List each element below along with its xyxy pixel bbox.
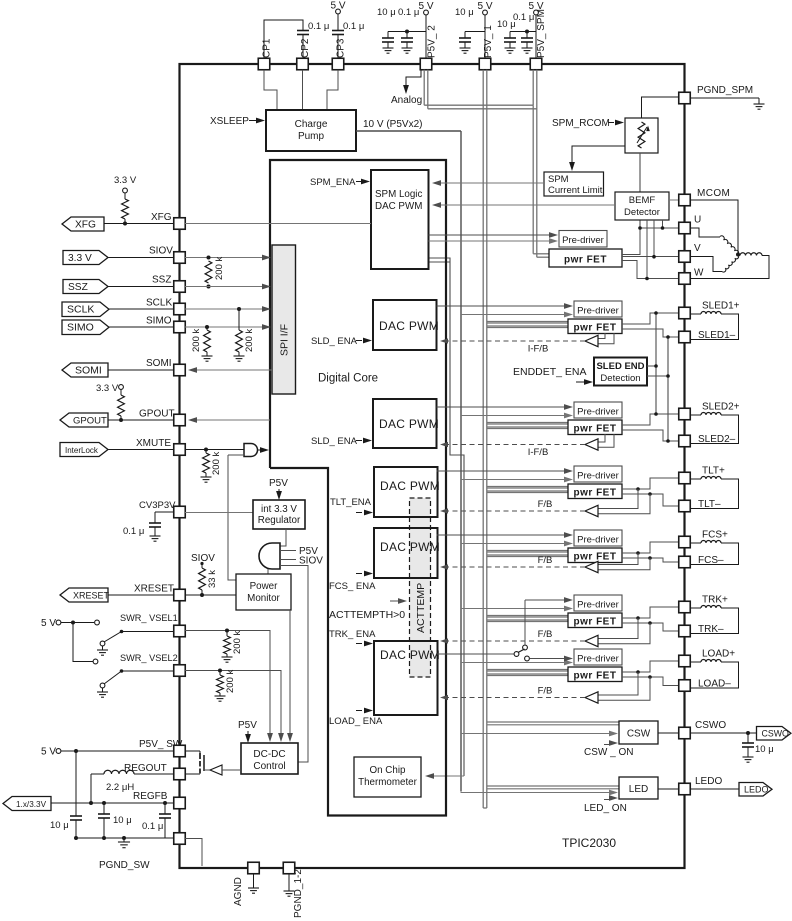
svg-text:TLT_ENA: TLT_ENA xyxy=(330,497,372,508)
5V supply node for P5V_2 xyxy=(424,10,429,15)
bus P5V_SPM double vertical xyxy=(532,105,534,254)
pin XRESET xyxy=(174,589,186,601)
dashed feedback line SLED1 xyxy=(443,340,585,342)
wire sense- to FB amp SLED1 xyxy=(598,333,614,344)
svg-text:Detection: Detection xyxy=(600,373,640,384)
svg-text:5 V: 5 V xyxy=(418,1,433,12)
svg-text:CP3: CP3 xyxy=(336,38,347,58)
DAC PWM border redraw 3 xyxy=(374,467,438,517)
pin REGFB xyxy=(174,797,186,809)
svg-text:5 V: 5 V xyxy=(477,1,492,12)
wire power monitor to DC-DC xyxy=(289,610,291,737)
wire DAC to pre-driver SLED2 xyxy=(437,406,569,408)
svg-text:CP1: CP1 xyxy=(262,38,273,58)
tag SSZ xyxy=(63,280,108,294)
svg-text:0.1 μ: 0.1 μ xyxy=(142,821,163,832)
DAC PWM block 3 TLT xyxy=(374,467,438,517)
wire SIOV xyxy=(108,257,174,259)
inductor loop FCS xyxy=(690,542,701,544)
svg-text:SIMO: SIMO xyxy=(146,316,172,327)
ground under 0.1u cap P5V_2 xyxy=(406,42,408,48)
wire SIMO xyxy=(109,326,174,328)
capacitor 0.1u CV3P3V xyxy=(149,522,161,524)
pin CP3 xyxy=(332,58,344,70)
svg-text:SLED1–: SLED1– xyxy=(698,330,736,341)
wire arrow into on-chip thermometer xyxy=(427,775,464,777)
svg-text:CSWO: CSWO xyxy=(762,729,790,739)
wire sense- to FB amp FCS xyxy=(598,558,650,570)
wire SLED END sense rail - xyxy=(647,375,668,377)
pullup 3.3V for XFG xyxy=(123,188,128,193)
svg-text:SPI I/F: SPI I/F xyxy=(279,324,291,356)
selector switch TRK LOAD xyxy=(437,653,515,655)
svg-text:SIOV: SIOV xyxy=(191,553,215,564)
pin XMUTE xyxy=(174,444,186,456)
resistor 200k SCLK pulldown xyxy=(238,309,240,330)
wire SPM logic to pre-driver 1 xyxy=(429,234,554,236)
wire SCLK xyxy=(109,308,174,310)
svg-text:XSLEEP: XSLEEP xyxy=(210,116,249,127)
pin PGND_SW xyxy=(174,833,186,845)
svg-text:3.3 V: 3.3 V xyxy=(114,175,137,186)
capacitor 0.1u on CP3 xyxy=(332,30,344,32)
dashed feedback line TRK xyxy=(443,640,585,642)
pin CSWO xyxy=(658,732,679,734)
pin GPOUT xyxy=(174,414,186,426)
svg-text:XMUTE: XMUTE xyxy=(136,438,171,449)
wire CSWO to tag xyxy=(690,732,757,734)
svg-text:P5V_ 1: P5V_ 1 xyxy=(483,25,494,58)
wire pwr FET out- SLED2 xyxy=(622,430,679,441)
tag LEDO xyxy=(739,783,772,797)
pin LOAD- xyxy=(679,680,691,692)
wire RCOM sense down to FET output xyxy=(639,153,641,228)
wire XFG internal to SPM logic xyxy=(185,223,371,225)
pin SOMI xyxy=(174,364,186,376)
wire XMUTE xyxy=(108,449,174,451)
pin W xyxy=(679,273,691,285)
svg-text:PGND_SW: PGND_SW xyxy=(99,860,150,871)
ground VSEL1 switch xyxy=(102,646,104,650)
wire pwr FET out+ FCS xyxy=(622,542,679,553)
svg-text:pwr FET: pwr FET xyxy=(574,424,617,435)
svg-text:LOAD–: LOAD– xyxy=(698,679,731,690)
motor winding U phase xyxy=(690,228,720,237)
wire pwr FET out- SLED1 xyxy=(622,329,679,337)
int 3.3V regulator block xyxy=(253,500,305,529)
pin SLED2+ xyxy=(679,408,691,420)
pin CP1 xyxy=(258,58,270,70)
svg-text:REGFB: REGFB xyxy=(133,791,168,802)
svg-text:Pre-driver: Pre-driver xyxy=(577,535,619,546)
svg-text:SLED2+: SLED2+ xyxy=(702,402,740,413)
wire AND gate output to core xyxy=(258,449,263,451)
svg-text:3.3 V: 3.3 V xyxy=(68,253,92,264)
svg-text:SPM: SPM xyxy=(548,174,569,185)
svg-text:REGOUT: REGOUT xyxy=(124,763,167,774)
pin MCOM xyxy=(679,194,691,206)
pin TRK- xyxy=(679,625,691,637)
tag 1.x/3.3V output xyxy=(3,797,51,811)
svg-text:pwr FET: pwr FET xyxy=(574,488,617,499)
bus P5V_2 double horizontal xyxy=(423,70,425,106)
DAC PWM block 4 FCS xyxy=(374,528,438,578)
inductor loop SLED2 xyxy=(690,414,701,416)
decoupling branch P5V_2 xyxy=(388,31,426,33)
svg-text:XFG: XFG xyxy=(151,212,172,223)
svg-text:10 V (P5Vx2): 10 V (P5Vx2) xyxy=(363,119,422,130)
svg-text:Thermometer: Thermometer xyxy=(358,777,418,788)
switch lever VSEL1 xyxy=(120,630,124,634)
wire bus double feed to LED xyxy=(487,785,619,787)
BEMF detector block xyxy=(615,192,669,220)
pin U xyxy=(679,222,691,234)
capacitor 0.1u on CP2 xyxy=(297,30,309,32)
svg-text:CV3P3V: CV3P3V xyxy=(139,500,176,511)
wire pwr FET out+ TLT xyxy=(622,478,679,489)
pin SIMO xyxy=(174,321,186,333)
wire 5V down to P5V_SPM pin xyxy=(535,15,537,59)
capacitor 0.1u at P5V_2 xyxy=(401,37,413,39)
pwr FET block SLED2 xyxy=(568,420,622,435)
svg-text:pwr FET: pwr FET xyxy=(574,671,617,682)
svg-text:SCLK: SCLK xyxy=(146,298,172,309)
svg-text:5 V: 5 V xyxy=(41,618,56,629)
power monitor block xyxy=(236,574,291,610)
pin REGOUT xyxy=(174,768,186,780)
label LOAD_ENA with arrow xyxy=(356,710,362,712)
wire 5V to VSEL2 contact xyxy=(73,623,93,662)
svg-text:PGND_1-2: PGND_1-2 xyxy=(293,869,304,918)
pin CV3P3V xyxy=(174,506,186,518)
svg-text:XRESET: XRESET xyxy=(134,584,174,595)
ground under 10u cap P5V_1 xyxy=(464,42,466,48)
svg-text:Detector: Detector xyxy=(624,207,660,218)
wire BEMF sense tap U xyxy=(662,220,664,228)
svg-text:5 V: 5 V xyxy=(330,1,345,12)
SPM Logic DAC PWM block xyxy=(371,170,429,269)
svg-text:Pre-driver: Pre-driver xyxy=(562,235,604,246)
pin SCLK xyxy=(174,303,186,315)
wire gate output to DC-DC xyxy=(280,566,308,763)
pwr FET block FCS xyxy=(568,548,622,563)
5V supply node for P5V_SPM xyxy=(534,10,539,15)
resistor 200k SIOV-SSZ xyxy=(205,261,212,283)
pin P5V_2 xyxy=(420,58,432,70)
ground under 10u cap P5V_SPM xyxy=(509,42,511,48)
inductor 2.2uH xyxy=(104,770,134,774)
wire 10V bus to pre-driver LOAD xyxy=(461,662,568,664)
svg-text:Pre-driver: Pre-driver xyxy=(577,600,619,611)
bus SPM logic aux vertical 2 xyxy=(429,261,451,263)
svg-text:F/B: F/B xyxy=(538,499,553,510)
DAC PWM border redraw 4 xyxy=(374,528,438,578)
svg-text:CSW: CSW xyxy=(627,729,651,740)
ground under 0.1u cap P5V_SPM xyxy=(526,42,528,48)
pwr FET block SLED1 xyxy=(568,319,622,334)
wire sense+ to FB amp TLT xyxy=(598,489,638,509)
svg-text:33 k: 33 k xyxy=(207,570,218,588)
svg-text:200 k: 200 k xyxy=(244,329,255,352)
svg-text:DAC PWM: DAC PWM xyxy=(380,648,440,662)
wire pwr FET out+ SLED1 xyxy=(622,313,679,324)
svg-text:10 μ: 10 μ xyxy=(455,7,474,18)
svg-text:0.1 μ: 0.1 μ xyxy=(398,7,419,18)
wire SSZ xyxy=(108,286,174,288)
wire GPOUT xyxy=(108,419,174,421)
svg-text:0.1 μ: 0.1 μ xyxy=(308,21,329,32)
wire 5V to CP3 cap xyxy=(337,14,339,31)
pwr FET block LOAD xyxy=(568,667,622,682)
svg-text:SPM_RCOM: SPM_RCOM xyxy=(552,118,610,129)
wire power monitor to AND gate xyxy=(228,455,236,580)
wire sense+ to FB amp SLED1 xyxy=(598,333,605,339)
DC-DC control block xyxy=(241,743,298,774)
svg-text:F/B: F/B xyxy=(538,686,553,697)
pin AGND xyxy=(248,862,260,874)
bus double feed to pwr FET FCS xyxy=(487,550,568,552)
SPI I/F block xyxy=(272,245,296,394)
wire 10V bus to CSW xyxy=(461,733,613,735)
motor winding MCOM wire xyxy=(690,200,738,255)
wire PGND_SPM to external ground xyxy=(690,97,759,99)
wire VSEL2 internal xyxy=(185,671,281,738)
svg-text:10 μ: 10 μ xyxy=(50,820,69,831)
svg-text:LOAD_ ENA: LOAD_ ENA xyxy=(329,716,383,727)
wire SSZ internal to SPI xyxy=(185,286,266,288)
pre-driver block LOAD xyxy=(574,649,622,665)
pre-driver block FCS xyxy=(574,530,622,546)
DAC PWM block 5 TRK LOAD xyxy=(374,641,438,715)
dashed feedback line SLED2 xyxy=(443,444,585,446)
svg-text:SIOV: SIOV xyxy=(149,246,173,257)
dashed feedback line FCS xyxy=(443,566,585,568)
bus P5V_1 double vertical xyxy=(482,70,484,808)
pin P5V_SPM xyxy=(530,58,542,70)
svg-text:FCS_ ENA: FCS_ ENA xyxy=(329,581,376,592)
switch lever VSEL2 xyxy=(120,669,124,673)
wire 5V to VSEL1 contact xyxy=(61,622,94,624)
wire SPM current limit to SPM logic xyxy=(434,182,544,184)
pass FET switch xyxy=(185,750,200,752)
svg-text:0.1 μ: 0.1 μ xyxy=(343,21,364,32)
AND gate XMUTE xyxy=(244,444,258,457)
inductor loop SLED1 xyxy=(690,313,701,315)
svg-text:I-F/B: I-F/B xyxy=(528,447,549,458)
wire BEMF sense tap V xyxy=(653,220,655,257)
wire CP2 pin to charge pump xyxy=(302,70,304,110)
feedback amp triangle TRK xyxy=(585,635,598,646)
svg-text:P5V: P5V xyxy=(238,720,257,731)
svg-text:LEDO: LEDO xyxy=(744,785,769,795)
svg-text:Current Limit: Current Limit xyxy=(548,185,603,196)
svg-text:10 μ: 10 μ xyxy=(377,7,396,18)
wire charge pump output 10V xyxy=(356,130,461,132)
wire U pin lead xyxy=(640,227,679,229)
LED block xyxy=(619,777,658,799)
wire pwr FET SPM out V xyxy=(622,256,679,258)
pin TLT+ xyxy=(679,472,691,484)
wire 10V bus to pre-driver SLED1 xyxy=(461,314,568,316)
svg-text:Analog: Analog xyxy=(391,95,422,106)
bus 10V analog vertical xyxy=(460,131,462,791)
pwr FET block TRK xyxy=(568,613,622,628)
pin CP2 xyxy=(297,58,309,70)
svg-text:FCS+: FCS+ xyxy=(702,530,728,541)
svg-text:SLD_ ENA: SLD_ ENA xyxy=(311,336,358,347)
wire CP3 pin to charge pump xyxy=(327,70,338,110)
svg-text:P5V_ 2: P5V_ 2 xyxy=(427,25,438,58)
svg-text:200 k: 200 k xyxy=(214,257,225,280)
wire XRESET xyxy=(108,594,174,596)
svg-text:FCS–: FCS– xyxy=(698,555,724,566)
svg-text:10 μ: 10 μ xyxy=(113,815,132,826)
svg-text:SCLK: SCLK xyxy=(67,304,94,316)
capacitor 0.1u output xyxy=(164,803,166,814)
svg-text:2.2 μH: 2.2 μH xyxy=(106,782,134,793)
wire DAC to pre-driver TLT xyxy=(437,470,569,472)
wire CP1 pin to charge pump xyxy=(264,70,277,110)
5V supply node for P5V_1 xyxy=(483,10,488,15)
wire input cap branch xyxy=(75,751,77,816)
svg-text:SWR_ VSEL1: SWR_ VSEL1 xyxy=(120,613,178,623)
svg-text:LOAD+: LOAD+ xyxy=(702,649,735,660)
5V supply node for CP3 xyxy=(336,9,341,14)
svg-text:TLT+: TLT+ xyxy=(702,466,725,477)
svg-text:DAC PWM: DAC PWM xyxy=(379,417,439,431)
wire BEMF to MCOM pin xyxy=(669,199,679,201)
wire CP1 top loop xyxy=(264,20,303,59)
svg-text:ENDDET_ ENA: ENDDET_ ENA xyxy=(513,366,587,378)
resistor 200k VSEL1 pulldown xyxy=(226,631,228,637)
wire 10V bus to pre-driver FCS xyxy=(461,543,568,545)
decoupling branch P5V_1 xyxy=(465,31,485,33)
svg-text:TPIC2030: TPIC2030 xyxy=(562,836,616,850)
label FCS_ENA with arrow xyxy=(356,573,362,575)
wire gate to power monitor xyxy=(267,569,269,574)
pin FCS+ xyxy=(679,536,691,548)
ground PGND_1-2 xyxy=(288,874,290,891)
ACTTEMP strip dashed region xyxy=(410,498,431,677)
svg-text:SWR_ VSEL2: SWR_ VSEL2 xyxy=(120,653,178,663)
svg-text:InterLock: InterLock xyxy=(65,446,99,455)
wire pwr FET out- FCS xyxy=(622,558,679,562)
svg-text:Pre-driver: Pre-driver xyxy=(577,654,619,665)
svg-text:U: U xyxy=(694,215,701,226)
svg-text:GPOUT: GPOUT xyxy=(139,409,175,420)
inductor loop TLT xyxy=(690,478,701,480)
wire BEMF detector to SPM logic xyxy=(434,204,615,206)
bus double feed to pwr FET LOAD xyxy=(487,669,568,671)
wire pwr FET out+ TRK xyxy=(622,607,679,618)
wire gate input P5V xyxy=(280,550,296,552)
svg-text:SPM_ENA: SPM_ENA xyxy=(310,177,356,188)
svg-text:CSWO: CSWO xyxy=(695,720,726,731)
pin SSZ xyxy=(174,281,186,293)
decoupling branch P5V_SPM xyxy=(510,31,536,33)
svg-text:SSZ: SSZ xyxy=(152,275,171,286)
svg-text:ACTTEMPTH>0: ACTTEMPTH>0 xyxy=(329,609,405,621)
bus SPM logic aux vertical 1 xyxy=(429,258,465,776)
wire pwr FET out+ LOAD xyxy=(622,661,679,672)
ground under 10u cap P5V_2 xyxy=(387,42,389,48)
resistor 33k SIOV to XRESET xyxy=(201,564,203,569)
svg-text:TRK–: TRK– xyxy=(698,624,724,635)
wire SWR_VSEL1 xyxy=(122,631,175,633)
pin SWR_VSEL1 xyxy=(174,625,186,637)
svg-text:DAC PWM: DAC PWM xyxy=(380,479,440,493)
pin LOAD+ xyxy=(679,655,691,667)
wire inductor to output node xyxy=(91,773,104,775)
capacitor 10u input xyxy=(70,815,82,817)
pin SIOV xyxy=(174,252,186,264)
wire bus double feed to CSW xyxy=(487,721,619,723)
inductor loop TRK xyxy=(690,607,701,609)
wire sense- to FB amp TLT xyxy=(598,494,650,514)
svg-text:CSW _ ON: CSW _ ON xyxy=(584,747,633,758)
wire pwr FET SPM out W xyxy=(622,261,679,279)
wire pwr FET out- LOAD xyxy=(622,677,679,686)
pre-driver block TLT xyxy=(574,466,622,482)
feedback amp triangle SLED1 xyxy=(585,335,598,346)
svg-text:10 μ: 10 μ xyxy=(755,744,774,755)
wire VSEL1 internal xyxy=(185,631,270,738)
svg-text:200 k: 200 k xyxy=(232,631,243,654)
svg-text:SLED2–: SLED2– xyxy=(698,434,736,445)
svg-text:Digital Core: Digital Core xyxy=(318,373,378,385)
pre-driver block SLED1 xyxy=(574,301,622,317)
wire pwr FET SPM out U xyxy=(622,228,640,255)
pin P5V_SW xyxy=(174,745,186,757)
tag XFG xyxy=(62,217,104,231)
tag SIMO xyxy=(62,320,109,335)
svg-text:SOMI: SOMI xyxy=(75,364,102,376)
svg-text:SIMO: SIMO xyxy=(67,322,94,334)
svg-text:SSZ: SSZ xyxy=(68,282,88,293)
ground AGND xyxy=(253,874,255,888)
svg-text:F/B: F/B xyxy=(538,555,553,566)
pin SWR_VSEL2 xyxy=(174,665,186,677)
wire CV3P3V to regulator xyxy=(185,512,253,514)
capacitor 0.1u at P5V_SPM xyxy=(521,37,533,39)
svg-text:DAC PWM: DAC PWM xyxy=(380,540,440,554)
CSW block xyxy=(619,721,658,744)
label CSW_ON with arrow xyxy=(604,744,611,746)
feedback amp triangle LOAD xyxy=(585,692,598,703)
svg-text:Pre-driver: Pre-driver xyxy=(577,471,619,482)
svg-text:LEDO: LEDO xyxy=(695,776,722,787)
capacitor 10u at P5V_SPM xyxy=(504,37,516,39)
wire sense+ to FB amp LOAD xyxy=(598,672,638,695)
svg-text:TLT–: TLT– xyxy=(698,499,721,510)
wire RCOM to SPM current limit xyxy=(572,146,625,166)
svg-text:3.3 V: 3.3 V xyxy=(96,383,119,394)
wire pwr FET out- TLT xyxy=(622,494,679,506)
svg-text:P5V_ SPM: P5V_ SPM xyxy=(536,9,547,58)
wire 10V bus to pre-driver TRK xyxy=(461,608,568,610)
svg-text:V: V xyxy=(694,243,701,254)
resistor 200k XMUTE pulldown xyxy=(205,450,207,454)
svg-text:0.1 μ: 0.1 μ xyxy=(123,526,144,537)
svg-text:Charge: Charge xyxy=(295,119,328,130)
DAC PWM border redraw 5 xyxy=(374,641,438,715)
wire CV3P3V external cap xyxy=(155,511,174,513)
pin SLED1- xyxy=(679,331,691,343)
svg-text:Pre-driver: Pre-driver xyxy=(577,407,619,418)
svg-text:pwr FET: pwr FET xyxy=(574,617,617,628)
svg-text:I-F/B: I-F/B xyxy=(528,344,549,355)
wire REGOUT to inductor xyxy=(134,773,174,775)
